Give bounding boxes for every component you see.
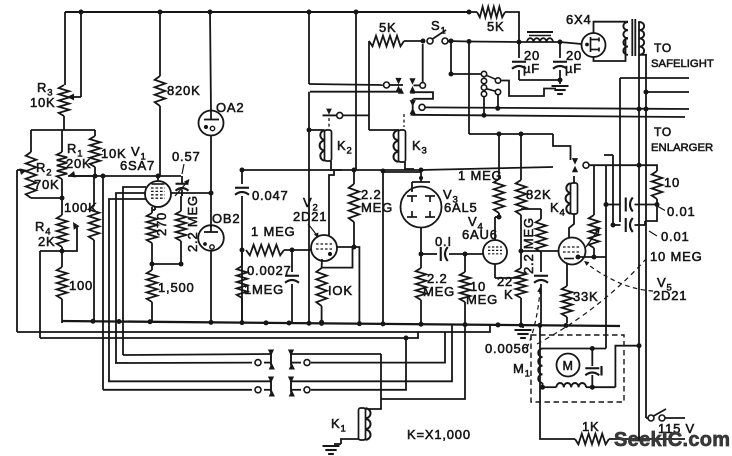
- contact levers: [486, 75, 496, 79]
- wire: [450, 41, 452, 74]
- svg-text:TO: TO: [654, 125, 672, 139]
- svg-text:OB2: OB2: [212, 211, 240, 226]
- resistor 10: [652, 171, 663, 199]
- contact K2: [323, 114, 337, 116]
- junction dot: [540, 385, 545, 390]
- wire: [645, 416, 647, 418]
- wire dashed pointer: [527, 291, 540, 348]
- svg-text:2K: 2K: [38, 234, 56, 249]
- capacitor 0.01 b: [625, 218, 627, 232]
- wire V4 plate: [494, 217, 496, 240]
- junction dot: [611, 223, 616, 228]
- resistor R3: [59, 85, 70, 116]
- wire: [519, 79, 560, 81]
- resistor 10 MEG v4: [464, 254, 466, 272]
- wire: [404, 40, 424, 42]
- wire row A lower right: [291, 362, 301, 364]
- inductor choke: [527, 38, 534, 42]
- wire: [284, 249, 311, 251]
- tube OA2: [199, 111, 224, 136]
- wire: [40, 332, 418, 338]
- junction dot: [101, 174, 106, 179]
- wire: [521, 208, 541, 210]
- dashed box M1: [531, 335, 624, 402]
- junction dot: [240, 248, 245, 253]
- svg-text:1K: 1K: [582, 419, 600, 434]
- wire top B+ bus: [65, 11, 469, 13]
- wire safelight a: [620, 77, 689, 79]
- junction dot: [91, 319, 96, 324]
- resistor 820K: [155, 76, 166, 106]
- wire: [308, 12, 310, 84]
- tube V2 2D21: [311, 235, 337, 261]
- capacitor 0.0056: [534, 275, 548, 277]
- svg-text:0.01: 0.01: [667, 204, 696, 219]
- contact cluster: [481, 71, 486, 76]
- wire: [30, 130, 32, 152]
- resistor R4: [57, 215, 68, 247]
- wire R1 wiper: [72, 175, 95, 177]
- resistor 1500: [151, 264, 153, 270]
- svg-text:ENLARGER: ENLARGER: [651, 142, 713, 154]
- junction dot: [156, 174, 161, 179]
- wire: [116, 193, 146, 363]
- transformer T1 secondary: [640, 22, 645, 30]
- contact V5k4: [572, 158, 578, 165]
- label 0.01 b: [649, 231, 657, 236]
- tube V4 internals: [488, 246, 502, 248]
- capacitor 0.1: [421, 253, 437, 255]
- resistor 1 MEG v: [494, 179, 505, 213]
- wire: [497, 95, 499, 109]
- tube V1 grids: [152, 183, 165, 185]
- resistor 10 MEG r: [593, 165, 595, 215]
- contact row107: [410, 100, 416, 107]
- contact blade B2: [290, 378, 292, 393]
- junction dot: [558, 78, 563, 83]
- resistor 2.2MEG v3: [420, 254, 422, 268]
- ground K1: [323, 445, 340, 447]
- wire: [606, 204, 621, 206]
- wire row B upper: [108, 380, 271, 382]
- svg-text:5K: 5K: [379, 20, 397, 35]
- junction dot: [482, 113, 487, 118]
- svg-text:5K: 5K: [487, 19, 505, 34]
- junction dot: [421, 39, 426, 44]
- wire grid row: [68, 175, 95, 177]
- wire: [469, 11, 477, 13]
- wire R3 wiper feed: [80, 12, 82, 97]
- junction dot: [463, 252, 468, 257]
- svg-text:0.I: 0.I: [435, 234, 452, 249]
- svg-text:OA2: OA2: [216, 100, 244, 115]
- wire V1 plate: [171, 192, 211, 194]
- wire common: [310, 91, 401, 93]
- resistor 10 MEG r arrow: [586, 230, 598, 247]
- contact S1b: [422, 44, 424, 83]
- resistor 2.2 MEG mid: [353, 170, 355, 184]
- capacitor 20uF a: [518, 42, 520, 58]
- junction dot: [319, 320, 324, 325]
- wire: [469, 133, 553, 135]
- wire: [109, 199, 146, 381]
- junction dot: [637, 343, 642, 348]
- wire row B lower right: [291, 389, 301, 391]
- wire secondary top: [638, 22, 641, 439]
- svg-text:6X4: 6X4: [566, 12, 592, 27]
- wire: [613, 224, 621, 226]
- mech link K3: [403, 114, 405, 127]
- wire V3 bottom: [420, 228, 422, 255]
- wire V2 label arrow: [308, 224, 317, 236]
- resistor 100K: [93, 176, 95, 206]
- svg-text:2.2 MEG: 2.2 MEG: [185, 195, 200, 252]
- wire: [615, 346, 639, 388]
- junction dot: [449, 39, 454, 44]
- svg-text:20K: 20K: [66, 156, 92, 171]
- transformer T1 primary: [623, 22, 628, 30]
- resistor 270: [151, 207, 153, 213]
- wire 6X4 plate bot: [594, 38, 629, 61]
- wire to V5 grid: [521, 250, 559, 252]
- wire: [619, 78, 621, 222]
- wire: [210, 136, 212, 228]
- transformer core: [631, 19, 633, 56]
- junction dot: [290, 248, 295, 253]
- tube V1 6SA7: [145, 181, 171, 207]
- svg-text:820K: 820K: [167, 83, 201, 98]
- resistor 5K second: [477, 7, 505, 18]
- svg-text:0.0056: 0.0056: [485, 341, 530, 356]
- capacitor 0.047: [235, 187, 249, 189]
- resistor 1 MEG horiz: [246, 245, 284, 256]
- resistor 22K: [520, 251, 522, 268]
- wire: [241, 170, 243, 184]
- svg-text:100: 100: [69, 278, 93, 293]
- svg-text:270: 270: [154, 212, 169, 236]
- wire: [61, 179, 63, 215]
- resistor 1K: [575, 434, 609, 445]
- svg-text:0.57: 0.57: [172, 149, 201, 164]
- svg-text:1 MEG: 1 MEG: [458, 168, 502, 183]
- relay coil K4: [571, 183, 578, 214]
- svg-text:SeekIC.com: SeekIC.com: [614, 429, 730, 451]
- junction dot: [637, 163, 642, 168]
- wire secondary bottom: [640, 55, 647, 416]
- resistor 100: [61, 251, 63, 267]
- wire: [67, 94, 74, 101]
- junction dot: [93, 174, 98, 179]
- tube V3 plates: [407, 195, 417, 197]
- wire row B lower: [103, 389, 252, 391]
- label 10 MEG r: [537, 259, 646, 344]
- wire: [210, 12, 211, 111]
- svg-text:6SA7: 6SA7: [120, 158, 155, 173]
- wire: [468, 42, 470, 135]
- wire: [498, 134, 500, 179]
- resistor 10K v2: [316, 268, 327, 306]
- junction dot: [497, 215, 502, 220]
- wire: [368, 41, 370, 130]
- svg-text:µF: µF: [523, 61, 540, 76]
- svg-text:K=X1,000: K=X1,000: [407, 427, 471, 442]
- wire: [355, 12, 357, 170]
- junction dot: [419, 252, 424, 257]
- svg-text:10K: 10K: [30, 95, 56, 110]
- svg-text:2D21: 2D21: [653, 288, 687, 303]
- junction dot: [209, 191, 214, 196]
- relay coil K3: [399, 130, 406, 162]
- junction dot: [240, 168, 245, 173]
- wire 6X4 plate top: [594, 22, 629, 33]
- junction dot: [497, 132, 502, 137]
- wire: [405, 162, 414, 169]
- wire: [612, 155, 614, 225]
- wire: [31, 197, 62, 199]
- svg-text:1,500: 1,500: [158, 280, 195, 295]
- wire row A lower: [115, 362, 252, 364]
- tube 6X4: [582, 33, 606, 57]
- wire row A upper: [123, 354, 271, 355]
- wire R2 wiper: [19, 168, 27, 175]
- svg-text:TO: TO: [654, 41, 672, 55]
- svg-text:MEG: MEG: [466, 292, 498, 307]
- wire V3 top: [411, 182, 413, 192]
- wire enlarger b: [413, 115, 685, 117]
- wire: [309, 129, 325, 131]
- wire: [31, 129, 95, 131]
- junction dot: [79, 10, 84, 15]
- resistor 2.2MEG k4: [540, 209, 542, 219]
- contact blade B1: [270, 378, 272, 393]
- wire V1 grid feeds: [123, 187, 146, 355]
- junction dot: [307, 128, 312, 133]
- wire: [501, 81, 556, 97]
- wire: [609, 438, 685, 440]
- wire: [542, 383, 544, 387]
- svg-text:µF: µF: [565, 61, 582, 76]
- svg-text:82K: 82K: [526, 187, 552, 202]
- junction dot: [592, 255, 597, 260]
- capacitor 0.01 a: [625, 198, 627, 212]
- wire: [159, 12, 161, 76]
- svg-text:33K: 33K: [573, 289, 599, 304]
- svg-text:1 MEG: 1 MEG: [251, 224, 295, 239]
- wire: [451, 73, 481, 75]
- relay coil K2: [325, 130, 332, 161]
- wire: [605, 165, 607, 348]
- tube V4 6AU6: [483, 240, 507, 264]
- junction dot: [590, 346, 595, 351]
- junction dot: [404, 336, 409, 341]
- capacitor 0.0027: [291, 250, 293, 272]
- junction dot: [637, 107, 642, 112]
- ground: [559, 80, 561, 84]
- contact blade A2: [290, 351, 292, 366]
- svg-text:10 MEG: 10 MEG: [650, 249, 702, 264]
- wire: [64, 12, 66, 85]
- wire V2 plate side: [337, 247, 359, 323]
- junction dot: [60, 196, 65, 201]
- junction dot: [644, 90, 649, 95]
- tube V2 internals: [316, 243, 332, 245]
- wire V5 pointer: [586, 263, 653, 291]
- gang link: [483, 84, 485, 85]
- tube V5 2D21: [559, 238, 586, 265]
- junction dot: [519, 249, 524, 254]
- wire: [543, 348, 607, 350]
- wire: [520, 134, 522, 180]
- wire: [308, 130, 310, 323]
- wire: [448, 40, 469, 43]
- wire K4 top: [573, 176, 575, 183]
- svg-text:M: M: [563, 359, 574, 373]
- wire: [578, 256, 606, 258]
- capacitor 20uF b: [559, 42, 561, 58]
- resistor R2: [26, 152, 37, 198]
- tube V3 6AL5: [401, 187, 442, 228]
- contact blade A1: [270, 351, 272, 366]
- resistor 33K: [562, 286, 573, 317]
- motor M: [557, 354, 580, 377]
- junction dot: [655, 202, 660, 207]
- resistor 1MEG vert: [241, 250, 243, 266]
- relay coil K1: [359, 408, 366, 440]
- wire R4 tap: [39, 251, 41, 338]
- wire: [410, 88, 415, 94]
- inductor motor aux: [538, 349, 542, 358]
- wire V5 cathode: [566, 263, 568, 286]
- resistor 5K first: [369, 36, 404, 47]
- svg-text:IOK: IOK: [328, 283, 353, 298]
- mech link K2: [328, 118, 330, 129]
- svg-text:K: K: [504, 287, 513, 302]
- wire: [469, 41, 519, 44]
- wire V2 plate: [329, 170, 334, 236]
- junction dot: [150, 262, 155, 267]
- junction dot: [576, 255, 581, 260]
- wire: [17, 326, 490, 333]
- wire: [560, 42, 582, 44]
- wire: [152, 263, 181, 265]
- wire: [540, 325, 575, 439]
- junction dot: [517, 40, 522, 45]
- wire: [157, 176, 159, 181]
- svg-text:SAFELIGHT: SAFELIGHT: [651, 58, 714, 70]
- wire: [241, 196, 243, 323]
- wire: [341, 439, 359, 444]
- svg-text:MEG: MEG: [361, 200, 393, 215]
- wire row B upper right: [291, 325, 452, 382]
- wire V1 cathode: [154, 206, 156, 210]
- svg-text:1MEG: 1MEG: [244, 282, 284, 297]
- wire V4 cathode: [494, 264, 496, 278]
- wire: [553, 134, 571, 160]
- label 0.01 a: [658, 207, 665, 211]
- wire row A upper right: [291, 353, 381, 355]
- tube V5 internals: [563, 246, 581, 248]
- wire ground bus: [62, 321, 620, 326]
- resistor 82K: [516, 180, 527, 215]
- wire: [483, 97, 485, 116]
- wire: [309, 84, 383, 85]
- ground bus ground: [522, 325, 524, 328]
- wire: [383, 172, 421, 323]
- svg-text:2.2 MEG: 2.2 MEG: [521, 217, 536, 274]
- tube OB2: [198, 225, 224, 251]
- contact K2a: [384, 82, 390, 88]
- capacitor motor 1: [591, 349, 593, 367]
- svg-text:10: 10: [664, 175, 680, 190]
- wire: [331, 161, 342, 170]
- junction dot: [604, 202, 609, 207]
- resistor 2.2 MEG: [180, 196, 182, 211]
- switch 115V: [648, 415, 654, 421]
- resistor 10K: [94, 130, 96, 136]
- wire V2 cathode: [321, 259, 323, 268]
- resistor R1: [61, 130, 63, 152]
- wire B+ rail: [242, 169, 421, 171]
- svg-text:6AU6: 6AU6: [462, 227, 498, 242]
- svg-text:0.0027: 0.0027: [247, 263, 292, 278]
- svg-text:70K: 70K: [34, 177, 60, 192]
- wire: [639, 165, 657, 171]
- wire R4 wiper: [62, 227, 77, 251]
- wire: [210, 251, 212, 323]
- svg-text:100K: 100K: [64, 200, 98, 215]
- svg-text:2D21: 2D21: [293, 209, 327, 224]
- svg-text:6AL5: 6AL5: [444, 200, 478, 215]
- switch S1: [427, 38, 433, 44]
- wire safelight b: [646, 91, 689, 93]
- label 1: [600, 366, 602, 376]
- wire: [308, 92, 310, 130]
- svg-text:MEG: MEG: [423, 284, 455, 299]
- svg-text:0.047: 0.047: [252, 188, 289, 203]
- capacitor 0.57 trimmer: [176, 183, 189, 185]
- svg-text:0.01: 0.01: [661, 229, 690, 244]
- inductor motor main: [556, 383, 563, 387]
- wire K1 feed: [381, 325, 465, 399]
- wire: [569, 214, 574, 238]
- wire: [102, 176, 104, 390]
- wire hook: [645, 205, 657, 222]
